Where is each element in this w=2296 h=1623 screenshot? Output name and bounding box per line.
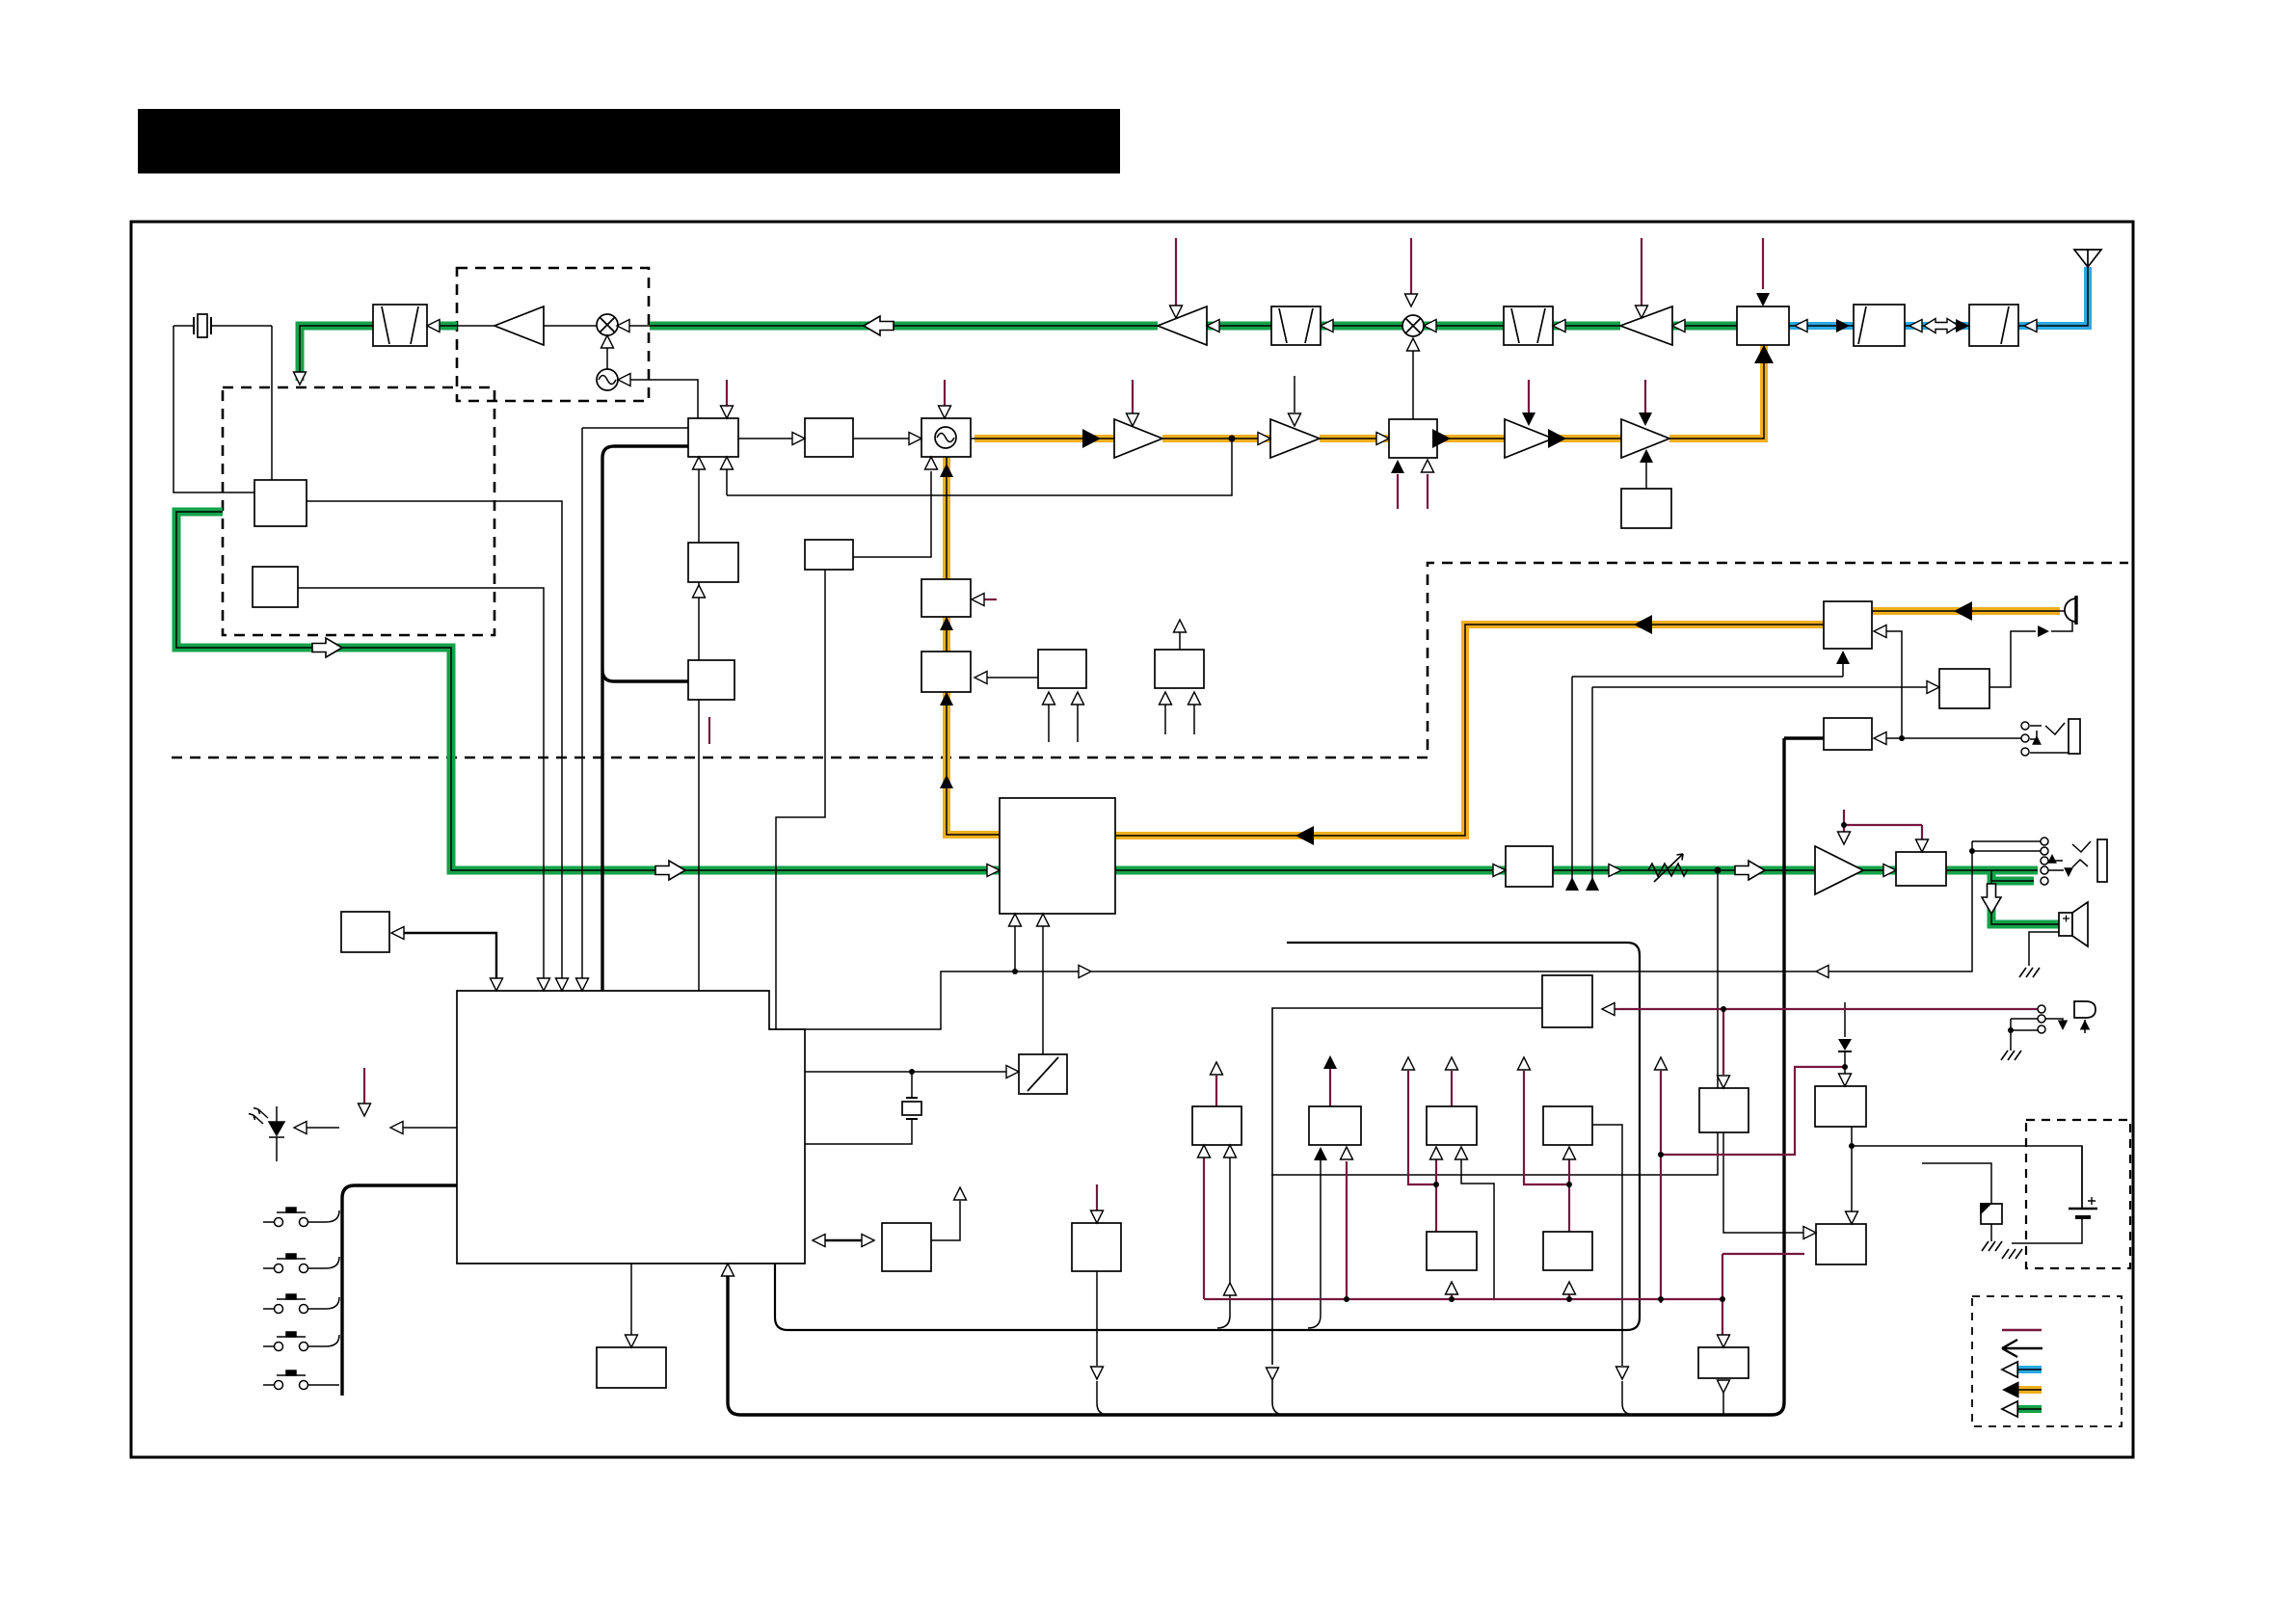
arrows: green AF to DSP [312,638,342,657]
filter F1 (455k ceramic filter) [373,305,427,346]
wire: maroon supply bus [1204,1254,1804,1335]
arrows: CPU area [491,978,503,991]
filter F3 (BPF) [1504,306,1553,345]
crystal X2 [902,1098,921,1119]
wire: power stub K8 [708,717,710,744]
block K1 (mic amp) [1824,601,1872,649]
arrows: RX chain power [1170,306,1183,318]
wire: D2b out to CPU [298,588,544,979]
block P6 (voltage detect) [1699,1088,1749,1132]
block B4 (shift register) [688,543,738,582]
arrows: green RX chain inputs [427,320,440,333]
node: battery line tap [1849,1143,1855,1149]
wire: power stubs M1 bottom [1398,474,1428,509]
block P10 (thermistor) [1981,1204,2002,1224]
wire: P1 bottom black stem [1308,1158,1321,1328]
black core lines of buses [176,267,2088,924]
wire: phone jack contacts [1972,841,2091,870]
wire: TX black power stub T2 [1294,376,1295,412]
block DSP (FM IF / AF processor) [1000,798,1115,914]
wire: B2 left input [582,428,688,979]
wire: B2 to B3 [738,438,793,439]
wire: P3 right output to bus [1592,1125,1634,1415]
block P9 (filter) [1815,1086,1866,1127]
microphone [2065,596,2076,625]
amp A6 (RF front amp) [1620,306,1672,345]
wire: P3 supply net [1524,1071,1569,1299]
node: clock line tap [909,1069,915,1075]
block P3 (common reg) [1543,1106,1592,1145]
wire: thick data bus B2 to CPU [602,446,688,991]
wire: speaker-jack contacts [2030,723,2069,753]
ground: battery [2002,1249,2022,1259]
node: P3 supply tap [1566,1182,1572,1187]
speaker-mic jack [2069,719,2080,754]
block K6 (SP switch) [1896,852,1946,886]
block SW (TX/RX switch) [1737,306,1789,345]
wire: B3 to OSC2 [853,438,910,439]
block P1 (TX 5V reg) [1309,1106,1361,1145]
ground: DC jack [2001,1051,2021,1060]
volume potentiometer [1648,854,1688,882]
block P5 (TX switch) [1543,1232,1592,1270]
key switch S5 [263,1370,339,1390]
legend: RF line sample [2002,1362,2042,1377]
phones jack [2097,839,2107,882]
wire: K1 input line [1572,664,1843,890]
wire: green AF line from IF unit to audio DSP [176,512,1000,870]
wire: B1 out to CPU [307,501,562,979]
wire: battery minus to ground [2012,1146,2082,1243]
legend: logic line sample [2002,1340,2042,1357]
block P2 (RX 5V reg) [1427,1106,1477,1145]
dashed box: front-end unit [457,268,649,401]
amp A5 (RF amp) [1158,306,1207,345]
wire: crystal X2 net [805,1072,912,1144]
wire: power stubs TX amps [1133,380,1645,414]
amp K5 (AF power amp) [1815,846,1863,894]
wire: CPU to K11 transceive line [813,1239,874,1241]
wire: P6 to P8 [1723,1132,1804,1233]
block P0 (5V regulator) [1192,1106,1241,1145]
arrows: power section [1198,1145,1211,1157]
node: audio amp power tap [1841,822,1847,828]
block K12 (reset IC) [1072,1223,1121,1271]
dashed box: legend [1972,1296,2122,1426]
jack contact circles (phones) [2041,838,2048,885]
title bar (redacted) [138,109,1120,173]
speaker [2059,902,2088,946]
node: speaker jack tap [1899,735,1905,741]
wire: DC jack wiring [2011,1019,2085,1051]
amp T4 (TX final) [1621,419,1669,458]
arrows: blue RF [2024,320,2037,333]
jack contact circles (speaker-mic) [2021,722,2029,756]
wire: mic jack net to K1/K2 [1886,631,2021,738]
key switch S2 [263,1254,339,1273]
wire: P1 supply [1330,1067,1347,1299]
block T5 (APC detector) [1621,489,1671,528]
block K8 (EEPROM) [688,660,734,700]
wire: Y4 stubs [1165,632,1194,734]
wire: yellow mod line DSP to modulator [947,457,1000,835]
wire: K12 to power detect [1097,1271,1108,1415]
mixer M2 (1st mixer) [1402,315,1424,336]
arrows: yellow mic line [1954,601,1972,621]
wire: mixer M3 to osc O1 [606,336,608,370]
wire: CPU to K13 [630,1264,632,1337]
wire: 5V to B2 [726,380,728,409]
wire: yellow mic line [1115,611,2060,836]
wire: crystal X1 leads [174,326,272,492]
wire: Y3 bottom stubs [1049,705,1078,742]
wire: B5 to CPU notch [776,570,825,1029]
wire: P2 bottom right stem [1461,1159,1494,1299]
wire: B5 to OSC2 mod input [853,471,931,557]
block OSC2 (VCO) [921,418,971,457]
wire: audio amp power [1844,810,1922,840]
block M1 (drive mixer) [1389,419,1437,458]
key switch S1 [263,1208,339,1227]
wire: thick bus CPU bottom loop 1 (to PA section) [775,943,1640,1330]
node: P2 supply tap [1433,1182,1439,1187]
block B5 (reference osc) [805,540,853,570]
arrows: PLL feedback [693,457,706,469]
wire: K2 to mic bias [1989,622,2072,687]
block P8 (battery detect) [1816,1224,1866,1264]
wire: 5V to OSC2 [944,380,946,409]
block P4 (RX switch) [1427,1232,1477,1270]
oscillator O1 (2nd LO) [597,369,618,390]
wire: P10 thermistor lines [1922,1163,1991,1241]
wire: diode net verticals [1844,1002,1846,1074]
wire: CPU notch to headphone sense [805,851,1972,1029]
node: supply bus taps [1344,1296,1349,1302]
DC jack circles [2038,1005,2045,1033]
wire: battery sense net [1661,1067,1845,1303]
block K3 (clone IF) [1824,718,1872,750]
block Y1 (AF mute) [921,579,971,617]
wire: P9 to P8 and battery line [1852,1127,2082,1211]
block K13 (LCD driver) [597,1347,666,1388]
block K9 (beep gen) [341,912,389,952]
block B3 (loop filter) [805,418,853,457]
wire: A7 amp links [544,325,650,327]
wire: power stubs RX chain [1176,238,1763,306]
dashed box: battery pack [2026,1120,2130,1268]
legend: RX line sample [2002,1401,2042,1417]
wire: yellow TX line driver chain [974,345,1764,439]
block Q0 (power SW) [1542,975,1592,1027]
amp T3 (TX driver) [1505,419,1553,458]
wire: K11 to 5V [931,1201,960,1240]
wire: P0 bottom thin stub [1217,1157,1230,1328]
wire: power stub Y1 [984,599,997,600]
wire: LED drive lines [306,1127,457,1129]
key switch S4 [263,1332,339,1351]
wire: 8V rail to Q0 and DC jack [1602,1009,2038,1075]
mixer M3 (2nd mixer) [597,314,618,335]
block Y3 (tone squelch) [1038,650,1086,688]
pilot lamp [2074,1001,2096,1018]
LED indicator [249,1106,284,1161]
wire: mixer M2 to M1 [1412,351,1414,419]
wire: Y2 to Y3 [987,677,1038,678]
wire: blue RF line antenna [1789,267,2088,326]
wire: thick bus CPU to key switches [342,1185,457,1396]
wire: osc O1 to B2 [629,380,698,418]
wire: feedback line TX buffer [699,439,1232,991]
ground: speaker [2019,968,2040,977]
block B2 (PLL IC) [688,418,738,457]
wire: CPU to VR block V1 [805,1071,1008,1073]
crystal X1 [194,314,211,337]
legend: control line sample [2002,1329,2042,1331]
block VOL1 (AF mute SW) [1506,846,1553,887]
wire: power switch Q0 to ground bus [1272,1008,1542,1415]
node: battery sense tap [1658,1152,1664,1157]
wire: thick bus CPU bottom loop 2 (to clone block) [728,738,1824,1415]
diode D1 [1838,1039,1852,1051]
hollow coax connector arrow [1924,319,1959,333]
wire: DSP bottom stems [1015,926,1043,1054]
node: diode output tap [1842,1064,1848,1070]
filter FL_A (ant LPF) [1969,305,2018,346]
block V1 (trimmer) [1019,1054,1067,1094]
block B1 (IF detector) [254,480,307,526]
node: AF line tap [1715,867,1722,874]
wire: P2 supply net [1408,1071,1452,1299]
diagram outer border [131,222,2133,1457]
antenna [2074,250,2101,267]
block K11 (level shifter) [882,1223,931,1271]
block Y4 (DTMF) [1155,650,1204,688]
arrows: green AF out of DSP [1493,865,1506,877]
amp T2 (TX pre-drive) [1270,419,1320,458]
wire: CPU to K9 display line [403,933,496,979]
wire: P7 bottom stem [1722,1335,1724,1415]
arrows: yellow TX chain [1082,429,1101,448]
filter F2 (BPF) [1271,306,1321,345]
wire: green RX line into 1st IF filter [300,326,457,381]
wire: T5 to T4 [1645,461,1647,489]
block Y2 (AF filter) [921,652,971,692]
wire: power to K12 [1096,1184,1098,1211]
legend: TX line sample [2002,1381,2042,1398]
wire: P0 regulator top/bottom [1204,1076,1216,1299]
wire: power LED feed [363,1068,365,1104]
wire: volume pot junction drop [1271,870,1718,1175]
amp T1 (TX buffer) [1114,419,1162,458]
wire: green AF line DSP to speaker/phones [1115,870,2059,924]
block D2b (discriminator) [253,567,298,607]
dashed box: IF unit [223,387,494,635]
wire: speaker ground [2029,932,2059,966]
key switch S3 [263,1294,339,1314]
block CPU (main microcontroller) [457,991,805,1264]
battery cell [2069,1197,2097,1217]
block K2 (mic mute) [1939,669,1989,708]
node: DC jack ground tap [2008,1027,2014,1033]
ground: thermistor [1982,1241,2002,1251]
filter F_B (LPF) [1854,305,1905,346]
node: 8V rail tap [1721,1006,1726,1012]
wire: K2 input line [1592,687,1931,890]
amp A7 (2nd IF amp) [494,306,544,345]
wire: green RX line top (antenna side to mixer) [650,322,1737,331]
node: TX feedback tap [1229,436,1236,442]
block P7 (shift) [1698,1347,1749,1378]
arrows: yellow mod line [940,692,953,705]
node: sense line tap [1012,969,1018,974]
dashed separator: main unit boundary [172,563,2128,758]
